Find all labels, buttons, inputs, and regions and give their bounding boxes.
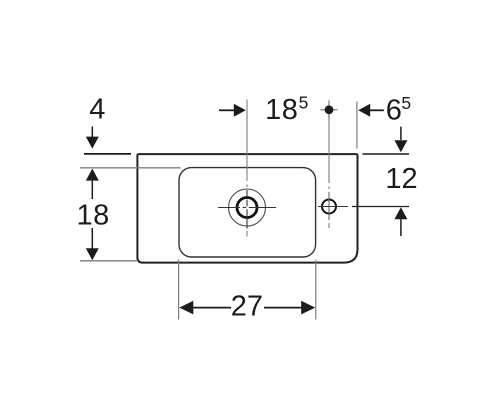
svg-text:27: 27 xyxy=(231,291,263,323)
svg-text:4: 4 xyxy=(89,94,105,126)
svg-text:5: 5 xyxy=(299,92,309,112)
svg-text:12: 12 xyxy=(385,163,417,195)
svg-text:18: 18 xyxy=(265,94,298,126)
svg-text:6: 6 xyxy=(386,94,402,126)
svg-text:18: 18 xyxy=(76,200,109,232)
svg-text:5: 5 xyxy=(401,93,411,113)
